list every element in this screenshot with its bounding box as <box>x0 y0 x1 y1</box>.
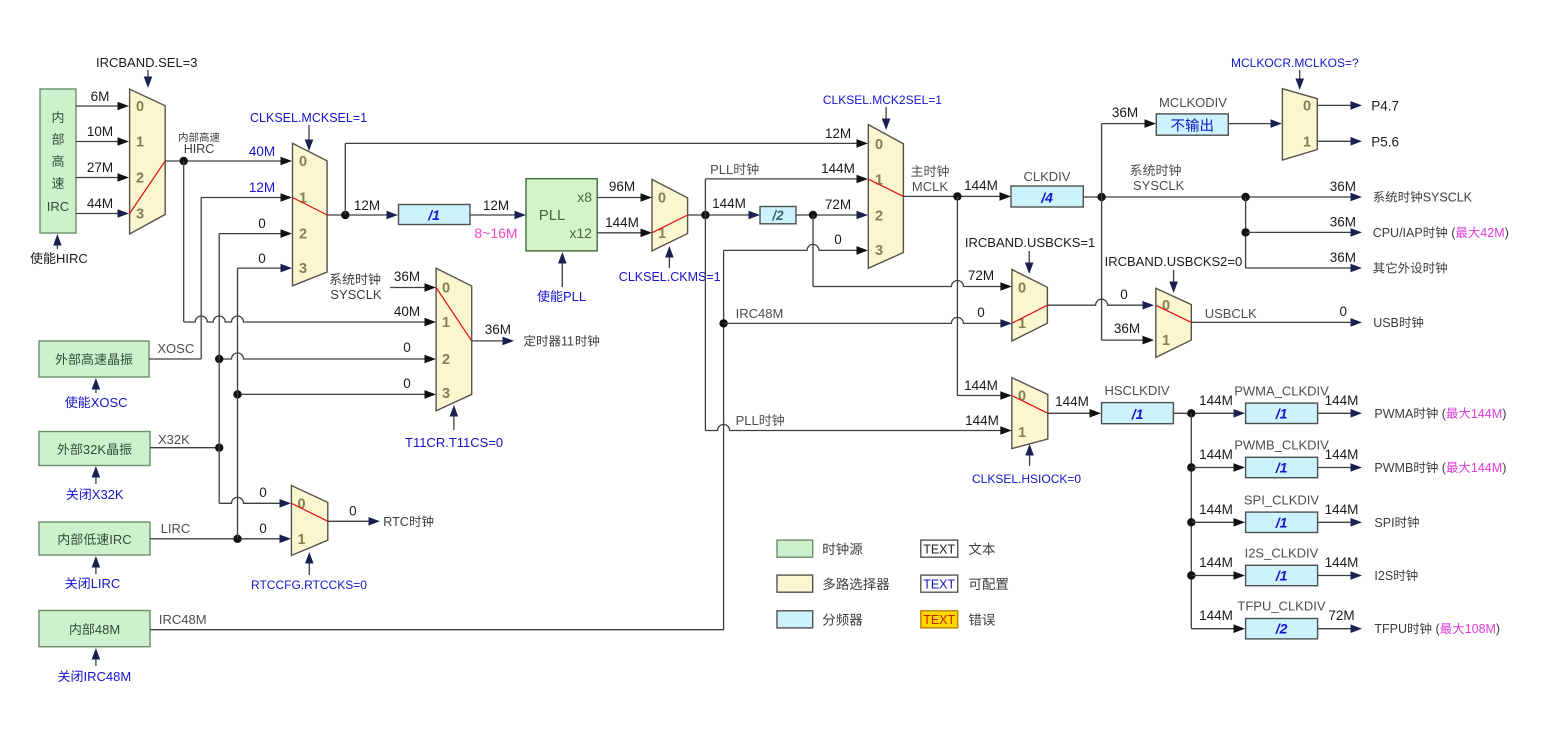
wire 0 from X32K to M2 input2 <box>219 233 285 235</box>
svg-text:TEXT: TEXT <box>923 543 955 557</box>
wire CPU/IAP clock <box>1246 231 1351 233</box>
svg-text:MCLK: MCLK <box>912 179 948 194</box>
svg-text:1: 1 <box>1303 134 1311 150</box>
wire IRC48M to M6 input1 <box>724 317 1005 323</box>
svg-text:XOSC: XOSC <box>157 341 194 356</box>
wire 72M down to M6 input0 <box>812 215 814 287</box>
svg-text:12M: 12M <box>249 180 275 195</box>
arrow config M8 <box>1029 448 1031 466</box>
svg-text:/2: /2 <box>771 208 784 223</box>
junction D2 out <box>809 211 817 219</box>
svg-text:SPI: SPI <box>1374 516 1394 530</box>
arrow config M6 <box>1028 251 1030 268</box>
svg-text:144M: 144M <box>964 178 998 193</box>
arrow config M2 <box>308 125 310 145</box>
svg-text:PWMA: PWMA <box>1374 407 1414 421</box>
svg-text:44M: 44M <box>87 196 113 211</box>
mux M6 IRCBAND.USBCKS <box>1012 270 1048 342</box>
mux M3 T11 <box>436 268 472 411</box>
svg-text:0: 0 <box>1340 304 1348 319</box>
arrow disable LIRC <box>95 560 97 574</box>
svg-text:XOSC: XOSC <box>91 395 128 410</box>
PLL box <box>526 179 597 251</box>
svg-text:SYSCLK: SYSCLK <box>330 287 382 302</box>
wire M4 output 144M <box>688 214 753 216</box>
svg-text:144M: 144M <box>1199 555 1233 570</box>
svg-text:2: 2 <box>299 227 307 243</box>
legend TEXT plain <box>921 540 958 557</box>
svg-text:36M: 36M <box>1114 321 1140 336</box>
svg-text:10M: 10M <box>87 124 113 139</box>
arrow disable X32K <box>95 470 97 484</box>
wire 40M into T11 input1 from HIRC <box>183 161 185 322</box>
wire 6M into mux M1 <box>76 105 122 107</box>
arrow enable PLL <box>561 256 563 287</box>
svg-text:0: 0 <box>403 376 411 391</box>
junction M2 out <box>341 211 349 219</box>
svg-text:36M: 36M <box>485 322 511 337</box>
svg-text:RTCCFG.RTCCKS=0: RTCCFG.RTCCKS=0 <box>251 578 367 592</box>
wire SYSCLK down to M7 input1 <box>1101 197 1103 340</box>
svg-text:36M: 36M <box>394 269 420 284</box>
wire D2 output 72M to M5 input2 <box>796 214 861 216</box>
red select line mux M7 input0 <box>1156 305 1192 322</box>
svg-text:PLL: PLL <box>539 207 566 224</box>
svg-text:): ) <box>1502 461 1506 475</box>
svg-text:IRC48M: IRC48M <box>159 612 207 627</box>
svg-text:/1: /1 <box>1275 514 1288 530</box>
red select line mux M6 input1 <box>1012 305 1048 323</box>
wire USBCLK out <box>1191 321 1351 323</box>
wire 0 into T11 input2 from X32K <box>219 353 429 359</box>
svg-text:I2S: I2S <box>1374 569 1393 583</box>
legend TEXT configurable <box>921 575 958 592</box>
svg-text:IRC48M: IRC48M <box>736 306 784 321</box>
svg-text:144M: 144M <box>1325 555 1359 570</box>
svg-text:): ) <box>1505 226 1509 240</box>
arrow config M10 <box>1299 70 1301 84</box>
svg-text:TEXT: TEXT <box>923 578 955 592</box>
red select line mux M2 input1 <box>293 198 328 216</box>
svg-text:MCLKODIV: MCLKODIV <box>1159 95 1227 110</box>
source box 外部32K晶振 <box>39 432 150 466</box>
svg-text:36M: 36M <box>1330 214 1356 229</box>
label 内部高速 HIRC <box>179 132 187 142</box>
svg-text:12M: 12M <box>825 126 851 141</box>
svg-text:72M: 72M <box>825 197 851 212</box>
svg-text:1: 1 <box>298 532 306 548</box>
red select line mux M5 input1 <box>868 179 903 196</box>
svg-text:27M: 27M <box>87 160 113 175</box>
svg-text:144M: 144M <box>821 161 855 176</box>
arrow enable HIRC <box>56 237 58 249</box>
wire X32K vertical <box>218 234 220 504</box>
mux M4 CLKSEL.CKMS <box>652 179 688 251</box>
svg-text:IRCBAND.SEL=3: IRCBAND.SEL=3 <box>96 55 198 70</box>
svg-text:0: 0 <box>442 281 450 297</box>
legend swatch mux <box>777 575 813 592</box>
wire 0 into T11 input3 from LIRC <box>238 393 430 395</box>
svg-text:36M: 36M <box>1112 105 1138 120</box>
wire SYSCLK branch vertical <box>1245 197 1247 268</box>
svg-text:36M: 36M <box>1330 179 1356 194</box>
svg-text:0: 0 <box>259 521 267 536</box>
svg-text:2: 2 <box>875 208 883 224</box>
svg-text:0: 0 <box>1303 98 1311 114</box>
wire 36M into T11 input0 <box>390 287 429 289</box>
arrow config M5 <box>885 107 887 124</box>
red select line mux M8 input0 <box>1012 396 1048 414</box>
arrow enable XOSC <box>95 382 97 393</box>
svg-text:): ) <box>1502 407 1506 421</box>
wire T11 output 36M <box>472 340 507 342</box>
svg-text:144M: 144M <box>964 378 998 393</box>
svg-text:0: 0 <box>136 99 144 115</box>
label 关闭X32K <box>66 488 78 500</box>
wire other peripherals clock <box>1246 267 1351 269</box>
arrow config M9 <box>308 556 310 575</box>
arrow config M7 <box>1173 270 1175 287</box>
source box 内部高速IRC <box>40 89 76 233</box>
svg-text:1: 1 <box>1018 425 1026 441</box>
svg-text:144M: 144M <box>1471 461 1502 475</box>
red select line mux M1 input3 <box>130 161 166 214</box>
wire PLL clock down to M8 input1 <box>704 215 706 431</box>
svg-text:2: 2 <box>136 171 144 187</box>
svg-text:0: 0 <box>258 216 266 231</box>
wire D1 to PLL <box>470 214 519 216</box>
label 系统时钟 SYSCLK right <box>1130 164 1141 176</box>
junction LIRC-T11 <box>233 390 241 398</box>
svg-text:PWMB_CLKDIV: PWMB_CLKDIV <box>1234 438 1329 453</box>
svg-text:144M: 144M <box>605 215 639 230</box>
svg-text:HIRC: HIRC <box>184 142 215 156</box>
wire M8 out to HSCLKDIV <box>1048 412 1094 414</box>
red select line mux M4 input1 <box>652 215 688 233</box>
junction SYSCLK branch2 <box>1241 228 1249 236</box>
wire RTC clock out <box>328 520 369 522</box>
label 主时钟 MCLK <box>911 165 923 176</box>
svg-text:40M: 40M <box>249 144 275 159</box>
svg-text:/4: /4 <box>1040 190 1053 206</box>
svg-text:PWMB: PWMB <box>1374 461 1413 475</box>
svg-text:36M: 36M <box>1330 250 1356 265</box>
divider SPI_CLKDIV <box>1187 518 1195 526</box>
junction SYSCLK <box>1097 193 1105 201</box>
svg-text:x8: x8 <box>577 189 592 205</box>
svg-text:P4.7: P4.7 <box>1371 98 1399 113</box>
svg-text:6M: 6M <box>91 89 110 104</box>
svg-text:): ) <box>1496 622 1500 636</box>
arrow config M4 <box>668 250 670 268</box>
legend TEXT error <box>921 611 958 628</box>
svg-text:144M: 144M <box>1325 502 1359 517</box>
svg-text:(: ( <box>1432 622 1440 636</box>
svg-text:108M: 108M <box>1465 622 1496 636</box>
svg-text:1: 1 <box>1162 333 1170 349</box>
mux M10 MCLKOS <box>1282 89 1317 160</box>
junction X32K <box>215 444 223 452</box>
svg-text:/1: /1 <box>1275 405 1288 421</box>
label 关闭IRC48M <box>58 670 70 682</box>
svg-text:/1: /1 <box>1275 568 1288 584</box>
svg-text:T11CR.T11CS=0: T11CR.T11CS=0 <box>405 435 503 450</box>
label 使能HIRC <box>30 252 42 264</box>
wire 44M into mux M1 <box>76 213 122 215</box>
svg-text:(: ( <box>1438 407 1446 421</box>
svg-text:144M: 144M <box>1199 502 1233 517</box>
svg-text:0: 0 <box>1120 287 1128 302</box>
wire M10 out0 to P4.7 <box>1317 104 1351 106</box>
svg-text:0: 0 <box>403 340 411 355</box>
svg-text:72M: 72M <box>968 268 994 283</box>
svg-text:USB: USB <box>1373 316 1399 330</box>
svg-text:MCLKOCR.MCLKOS=?: MCLKOCR.MCLKOS=? <box>1231 56 1359 70</box>
svg-text:0: 0 <box>977 305 985 320</box>
junction LIRC <box>233 535 241 543</box>
wire PLL x8 96M <box>597 197 645 199</box>
svg-text:40M: 40M <box>394 304 420 319</box>
label 系统时钟 SYSCLK near M2 <box>330 273 341 285</box>
svg-text:/1: /1 <box>427 207 440 223</box>
svg-text:CLKSEL.MCKSEL=1: CLKSEL.MCKSEL=1 <box>250 111 367 125</box>
svg-text:X32K: X32K <box>92 487 124 502</box>
svg-text:x12: x12 <box>569 225 592 241</box>
svg-text:HSCLKDIV: HSCLKDIV <box>1105 383 1170 398</box>
wire 10M into mux M1 <box>76 141 122 143</box>
junction SYSCLK branch1 <box>1241 193 1249 201</box>
wire 12M up and right to M5 input0 <box>344 143 346 215</box>
svg-text:SYSCLK: SYSCLK <box>1423 191 1473 205</box>
wire X32K to RTC mux input0 <box>219 497 284 503</box>
junction MCLK <box>953 192 961 200</box>
label 使能XOSC <box>65 396 77 408</box>
svg-text:3: 3 <box>875 243 883 259</box>
svg-text:P5.6: P5.6 <box>1371 134 1399 149</box>
svg-text:144M: 144M <box>1325 393 1359 408</box>
label 使能PLL <box>537 290 549 302</box>
wire SYSCLK out to terminal <box>1246 196 1351 198</box>
svg-text:TFPU: TFPU <box>1374 622 1407 636</box>
mux M2 CLKSEL.MCKSEL <box>293 143 328 285</box>
wire IRC48M to M5 input3 <box>724 244 861 250</box>
svg-text:11: 11 <box>561 335 574 349</box>
source box 内部48M <box>39 611 150 647</box>
svg-text:0: 0 <box>1018 280 1026 296</box>
svg-text:42M: 42M <box>1480 226 1504 240</box>
svg-text:72M: 72M <box>1328 608 1354 623</box>
wire M2 output 12M <box>327 214 391 216</box>
junction M4 out <box>701 211 709 219</box>
mux M1 IRCBAND <box>130 89 166 234</box>
svg-text:CPU/IAP: CPU/IAP <box>1373 226 1423 240</box>
svg-text:144M: 144M <box>965 413 999 428</box>
arrow config M1 <box>147 70 149 83</box>
svg-text:/1: /1 <box>1131 406 1144 422</box>
svg-text:12M: 12M <box>483 198 509 213</box>
wire M10 out1 to P5.6 <box>1317 140 1351 142</box>
svg-text:USBCLK: USBCLK <box>1205 306 1257 321</box>
wire LIRC vertical <box>237 268 239 539</box>
svg-text:144M: 144M <box>1199 393 1233 408</box>
svg-text:144M: 144M <box>1325 447 1359 462</box>
svg-text:32K: 32K <box>83 442 106 457</box>
red select line mux M9 input0 <box>291 503 327 521</box>
wire D4 to M10 <box>1228 123 1275 125</box>
wire peripheral distribution vertical <box>1190 413 1192 628</box>
svg-text:PWMA_CLKDIV: PWMA_CLKDIV <box>1234 383 1329 398</box>
svg-text:0: 0 <box>834 232 842 247</box>
mux M9 RTCCKS <box>291 486 327 556</box>
svg-text:CLKDIV: CLKDIV <box>1024 169 1071 184</box>
svg-text:96M: 96M <box>609 179 635 194</box>
wire HIRC output of M1 <box>165 160 285 162</box>
wire 0 from LIRC to M2 input3 <box>238 267 286 269</box>
divider TFPU_CLKDIV <box>1191 628 1238 630</box>
divider PWMB_CLKDIV <box>1187 463 1195 471</box>
svg-text:TFPU_CLKDIV: TFPU_CLKDIV <box>1237 599 1325 614</box>
divider D1 /1 <box>399 205 471 225</box>
svg-text:0: 0 <box>258 251 266 266</box>
svg-text:48M: 48M <box>95 622 120 637</box>
svg-text:PLL: PLL <box>563 289 586 304</box>
svg-text:(: ( <box>1438 461 1446 475</box>
wire MCLK output <box>903 195 1004 197</box>
wire SYSCLK up to MCLKODIV <box>1101 124 1103 197</box>
mux M5 CLKSEL.MCK2SEL <box>868 125 903 269</box>
svg-text:144M: 144M <box>1055 394 1089 409</box>
svg-text:144M: 144M <box>1471 407 1502 421</box>
svg-text:X32K: X32K <box>158 432 190 447</box>
junction HIRC <box>180 157 188 165</box>
label 关闭LIRC <box>65 577 77 589</box>
svg-text:12M: 12M <box>354 198 380 213</box>
wire 27M into mux M1 <box>76 177 122 179</box>
svg-text:CLKSEL.MCK2SEL=1: CLKSEL.MCK2SEL=1 <box>823 93 942 107</box>
svg-text:SPI_CLKDIV: SPI_CLKDIV <box>1244 492 1319 507</box>
source box 内部低速IRC <box>39 522 150 555</box>
svg-text:144M: 144M <box>1199 447 1233 462</box>
arrow config M3 <box>453 409 455 430</box>
svg-text:IRC: IRC <box>109 532 131 547</box>
wire M6 out to M7 input0 <box>1047 299 1147 305</box>
legend swatch divider <box>777 611 813 628</box>
svg-text:144M: 144M <box>1199 608 1233 623</box>
svg-text:IRCBAND.USBCKS=1: IRCBAND.USBCKS=1 <box>965 235 1095 250</box>
svg-text:0: 0 <box>259 485 267 500</box>
wire 12M from XOSC to M2 input1 <box>201 197 285 199</box>
junction IRC48M branch <box>719 319 727 327</box>
svg-text:/1: /1 <box>1275 460 1288 476</box>
divider I2S_CLKDIV <box>1187 571 1195 579</box>
svg-text:1: 1 <box>442 315 450 331</box>
wire HSCLKDIV out + junction <box>1173 412 1238 414</box>
svg-text:IRCBAND.USBCKS2=0: IRCBAND.USBCKS2=0 <box>1105 254 1243 269</box>
svg-text:TEXT: TEXT <box>923 613 955 627</box>
svg-text:2: 2 <box>442 352 450 368</box>
svg-text:RTC: RTC <box>383 515 408 529</box>
svg-text:0: 0 <box>658 191 666 207</box>
source box 外部高速晶振 <box>39 341 149 377</box>
divider D2 /2 <box>760 207 796 224</box>
red select line mux M3 input0 <box>436 288 472 341</box>
svg-text:144M: 144M <box>712 196 746 211</box>
wire PLL clock to M5 input1 <box>704 179 706 215</box>
svg-text:0: 0 <box>875 137 883 153</box>
svg-text:HIRC: HIRC <box>56 251 88 266</box>
svg-text:PLL: PLL <box>736 413 759 428</box>
svg-text:LIRC: LIRC <box>161 521 191 536</box>
svg-text:1: 1 <box>136 135 144 151</box>
svg-text:8~16M: 8~16M <box>474 225 517 241</box>
svg-text:IRC: IRC <box>47 199 69 214</box>
svg-text:3: 3 <box>299 261 307 277</box>
legend swatch clock source <box>777 540 813 557</box>
arrow disable IRC48M <box>95 652 97 666</box>
mux M8 CLKSEL.HSIOCK <box>1012 378 1048 449</box>
svg-text:LIRC: LIRC <box>91 576 121 591</box>
wire CLKDIV out to SYSCLK junction <box>1083 196 1245 198</box>
svg-text:0: 0 <box>349 503 357 518</box>
svg-text:SYSCLK: SYSCLK <box>1133 178 1185 193</box>
svg-text:PLL: PLL <box>710 162 733 177</box>
mux M7 IRCBAND.USBCKS2 <box>1156 288 1192 357</box>
svg-text:0: 0 <box>299 154 307 170</box>
svg-text:3: 3 <box>442 386 450 402</box>
wire MCLK down to M8 input0 <box>956 196 958 395</box>
wire PLL x12 144M <box>597 232 645 234</box>
svg-text:CLKSEL.HSIOCK=0: CLKSEL.HSIOCK=0 <box>972 472 1081 486</box>
svg-text:3: 3 <box>136 207 144 223</box>
svg-text:IRC48M: IRC48M <box>84 669 132 684</box>
svg-text:/2: /2 <box>1275 621 1288 637</box>
svg-text:I2S_CLKDIV: I2S_CLKDIV <box>1245 546 1319 561</box>
junction X32K-T11 <box>215 355 223 363</box>
